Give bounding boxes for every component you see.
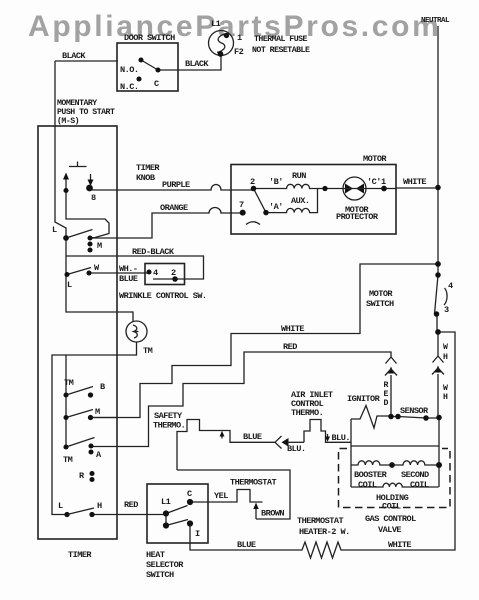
svg-text:THERMO.: THERMO. (153, 421, 185, 431)
svg-text:N.C.: N.C. (120, 82, 138, 92)
svg-text:C: C (154, 79, 159, 89)
svg-text:GAS CONTROL: GAS CONTROL (365, 514, 416, 524)
svg-text:MOTOR: MOTOR (363, 154, 387, 164)
svg-text:BLU.: BLU. (287, 444, 305, 454)
svg-text:H: H (97, 501, 102, 511)
svg-text:L: L (58, 501, 63, 511)
svg-text:BROWN: BROWN (261, 509, 284, 519)
svg-text:C: C (187, 489, 192, 499)
svg-text:AUX.: AUX. (291, 196, 309, 206)
svg-text:W: W (443, 384, 448, 393)
svg-text:NOT RESETABLE: NOT RESETABLE (252, 46, 310, 55)
svg-text:NEUTRAL: NEUTRAL (421, 17, 450, 25)
svg-text:TM: TM (64, 378, 74, 388)
svg-text:WRINKLE CONTROL SW.: WRINKLE CONTROL SW. (119, 291, 207, 301)
svg-text:M: M (97, 241, 102, 251)
svg-text:THERMOSTAT: THERMOSTAT (230, 478, 276, 488)
svg-text:'B': 'B' (269, 177, 283, 187)
svg-text:H: H (443, 353, 448, 362)
svg-text:COIL: COIL (382, 502, 401, 512)
svg-text:H: H (443, 393, 448, 402)
svg-text:SWITCH: SWITCH (146, 570, 174, 580)
svg-text:7: 7 (239, 200, 244, 210)
svg-text:B: B (100, 382, 105, 392)
svg-text:L1: L1 (211, 19, 221, 29)
svg-text:RUN: RUN (292, 171, 306, 181)
svg-text:ORANGE: ORANGE (160, 203, 188, 213)
svg-text:AppliancePartsPros.com: AppliancePartsPros.com (28, 10, 441, 43)
svg-text:THERMO.: THERMO. (291, 408, 323, 418)
svg-text:MOTOR: MOTOR (369, 289, 393, 299)
svg-text:SECOND: SECOND (401, 470, 429, 480)
svg-text:WHITE: WHITE (388, 540, 411, 550)
svg-text:HEAT: HEAT (146, 550, 165, 560)
svg-text:RED: RED (283, 342, 297, 352)
svg-text:WHITE: WHITE (281, 324, 304, 334)
svg-text:1: 1 (237, 33, 242, 43)
svg-text:R: R (384, 381, 389, 390)
svg-text:BOOSTER: BOOSTER (354, 470, 388, 480)
svg-text:TM: TM (143, 346, 153, 356)
svg-text:PROTECTOR: PROTECTOR (336, 212, 379, 222)
svg-text:TIMER: TIMER (136, 163, 160, 173)
svg-text:'A': 'A' (269, 202, 283, 212)
svg-text:SAFETY: SAFETY (154, 411, 183, 421)
svg-text:8: 8 (91, 193, 96, 203)
svg-text:IGNITOR: IGNITOR (347, 394, 381, 404)
svg-text:DOOR SWITCH: DOOR SWITCH (124, 33, 175, 43)
svg-text:TM: TM (63, 455, 73, 465)
svg-text:SELECTOR: SELECTOR (146, 560, 184, 570)
svg-text:2: 2 (171, 268, 176, 278)
svg-text:BLUE: BLUE (119, 274, 138, 284)
svg-text:BLUE: BLUE (243, 432, 262, 442)
svg-text:L1: L1 (161, 497, 171, 507)
svg-text:I: I (195, 529, 200, 539)
svg-text:N.O.: N.O. (120, 65, 138, 75)
svg-text:3: 3 (444, 305, 449, 315)
svg-text:'C': 'C' (367, 177, 381, 187)
svg-text:HEATER-2 W.: HEATER-2 W. (299, 527, 350, 537)
svg-text:E: E (384, 390, 389, 399)
svg-text:WHITE: WHITE (403, 177, 426, 187)
svg-text:BLU.: BLU. (332, 433, 350, 443)
svg-text:PURPLE: PURPLE (162, 180, 190, 190)
svg-text:THERMOSTAT: THERMOSTAT (297, 516, 343, 526)
svg-text:YEL: YEL (214, 491, 228, 501)
svg-text:BLUE: BLUE (237, 540, 256, 550)
svg-text:W: W (443, 343, 448, 352)
svg-text:4: 4 (448, 281, 453, 291)
svg-text:D: D (384, 399, 389, 408)
svg-text:BLACK: BLACK (185, 59, 209, 69)
svg-text:TIMER: TIMER (68, 550, 92, 560)
svg-text:1: 1 (381, 177, 386, 187)
svg-text:COIL: COIL (358, 480, 377, 490)
svg-text:THERMAL FUSE: THERMAL FUSE (254, 35, 308, 44)
svg-text:BLACK: BLACK (62, 51, 86, 61)
svg-text:2: 2 (250, 177, 255, 187)
svg-text:M: M (95, 407, 100, 417)
svg-text:L: L (52, 225, 57, 235)
svg-text:RED-BLACK: RED-BLACK (132, 247, 175, 257)
svg-text:F2: F2 (234, 47, 244, 57)
svg-text:(M-S): (M-S) (57, 116, 79, 126)
svg-text:MOMENTARY: MOMENTARY (57, 99, 97, 108)
svg-text:L: L (67, 280, 72, 290)
svg-text:COIL: COIL (410, 480, 429, 490)
svg-text:VALVE: VALVE (378, 525, 401, 535)
svg-text:KNOB: KNOB (136, 173, 155, 183)
svg-text:SWITCH: SWITCH (366, 299, 394, 309)
svg-text:SENSOR: SENSOR (400, 406, 429, 416)
svg-text:WH.-: WH.- (119, 264, 137, 274)
svg-text:PUSH TO START: PUSH TO START (57, 108, 115, 117)
svg-text:RED: RED (124, 500, 138, 510)
svg-text:4: 4 (153, 268, 158, 278)
